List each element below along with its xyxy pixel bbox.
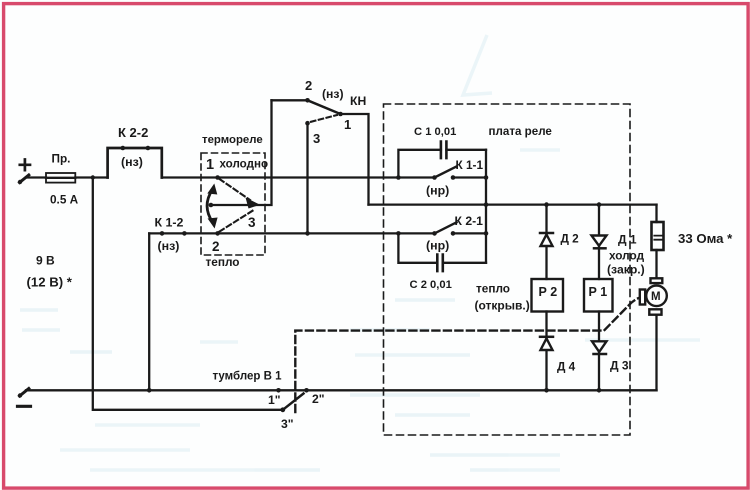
svg-text:КН: КН — [350, 94, 366, 108]
svg-text:тепло: тепло — [476, 282, 510, 296]
svg-text:0.5 А: 0.5 А — [50, 193, 79, 207]
contact К1-1 (нр) — [432, 167, 486, 180]
wire: top row A from К2-2 to relay board — [162, 176, 435, 178]
relay board плата реле dashed box — [384, 104, 631, 435]
svg-text:С 2 0,01: С 2 0,01 — [410, 279, 452, 291]
diode Д1 branch — [592, 202, 607, 279]
relay coil Р2 — [532, 279, 564, 312]
svg-text:(нз): (нз) — [158, 239, 180, 253]
plus terminal — [18, 160, 30, 185]
svg-text:9 В: 9 В — [36, 254, 55, 268]
svg-text:2: 2 — [212, 239, 220, 254]
svg-text:Пр.: Пр. — [52, 152, 71, 166]
svg-text:3: 3 — [248, 215, 256, 230]
diode Д4 branch — [540, 312, 553, 393]
svg-text:Д 4: Д 4 — [557, 360, 576, 374]
junction of К1-2 branch on bottom row — [147, 388, 152, 393]
wire: vertical from row C down to bottom row — [148, 233, 150, 390]
wire: row C with К1-2 — [149, 232, 434, 234]
wire: bottom return row — [26, 389, 657, 391]
svg-text:холод: холод — [609, 249, 645, 263]
svg-text:С 1 0,01: С 1 0,01 — [414, 126, 456, 138]
thermal relay curved double arrow — [207, 184, 218, 229]
capacitor C1 0,01 — [396, 142, 486, 180]
thermal relay dashed lever from node 1 to point 3 — [220, 179, 261, 209]
wire: row B from КН-1 to resistor — [369, 203, 657, 205]
diode Д3 branch — [592, 312, 607, 393]
thermal relay middle contact and wire to КН-2 — [209, 100, 272, 207]
diode Д2 branch — [540, 202, 553, 279]
wire: КН pin2 to left vertical — [272, 99, 308, 101]
resistor 33 Ома — [652, 205, 664, 279]
contact К2-2 (нз) raised section — [108, 146, 162, 178]
svg-text:2: 2 — [305, 78, 312, 93]
junction of C2 on row C — [396, 231, 401, 236]
svg-text:тумблер В 1: тумблер В 1 — [213, 371, 283, 383]
svg-text:2": 2" — [312, 392, 325, 406]
mechanical link dashed from toggle to motor — [295, 298, 639, 412]
wire: second bottom branch from fuse junction to toggle 3'' — [93, 178, 283, 410]
contact К2-1 (нр) — [432, 222, 486, 235]
svg-text:К 2-2: К 2-2 — [118, 125, 148, 140]
svg-text:Д 1: Д 1 — [618, 233, 637, 247]
capacitor C2 0,01 — [398, 233, 486, 271]
svg-text:33 Ома *: 33 Ома * — [678, 231, 733, 246]
svg-text:К 1-1: К 1-1 — [456, 158, 484, 172]
svg-text:(нр): (нр) — [426, 184, 449, 198]
wire: fuse to К2-2 — [75, 176, 107, 178]
svg-text:1: 1 — [344, 117, 351, 132]
svg-text:плата реле: плата реле — [489, 125, 553, 138]
svg-text:Р 2: Р 2 — [539, 285, 558, 299]
minus terminal — [18, 389, 31, 407]
wire: КН pin1 right and down to row B — [341, 114, 369, 205]
svg-text:1: 1 — [206, 157, 214, 173]
thermal relay dashed lever from node 2 to point 3 — [220, 210, 255, 232]
svg-text:(нз): (нз) — [322, 87, 344, 101]
svg-text:Р 1: Р 1 — [589, 285, 608, 299]
svg-text:3": 3" — [281, 417, 294, 431]
svg-text:(12 В) *: (12 В) * — [27, 275, 73, 290]
svg-text:(открыв.): (открыв.) — [475, 299, 530, 313]
motor М — [640, 278, 667, 390]
svg-text:К 1-2: К 1-2 — [155, 216, 184, 230]
thermal relay термореле dashed box — [201, 153, 265, 255]
svg-text:1": 1" — [268, 393, 281, 407]
svg-text:холодно: холодно — [220, 158, 269, 171]
junction node at fuse output — [91, 175, 95, 179]
svg-text:(закр.): (закр.) — [607, 263, 645, 277]
relay coil Р1 — [584, 279, 613, 312]
svg-text:термореле: термореле — [202, 134, 263, 146]
fuse Пр. 0.5 А — [46, 173, 75, 183]
toggle switch тумблер В1 — [276, 388, 309, 412]
svg-text:(нз): (нз) — [121, 155, 143, 169]
contact К1-2 (нз) — [160, 231, 187, 236]
svg-text:К 2-1: К 2-1 — [455, 214, 484, 228]
pushbutton КН — [305, 98, 343, 125]
svg-text:М: М — [651, 291, 661, 303]
wire: КН pin3 down to row C — [306, 123, 308, 233]
svg-text:Д 3: Д 3 — [610, 359, 629, 373]
svg-text:3: 3 — [313, 131, 320, 146]
node 1 junction of thermal relay on row A — [215, 175, 220, 180]
wire: from plus terminal to fuse — [26, 176, 46, 178]
node 2 junction of thermal relay on row C — [215, 231, 220, 236]
svg-text:(нр): (нр) — [426, 239, 449, 253]
svg-text:тепло: тепло — [206, 255, 240, 269]
svg-text:Д 2: Д 2 — [561, 232, 580, 246]
vertical bus at right of contacts — [485, 150, 487, 263]
